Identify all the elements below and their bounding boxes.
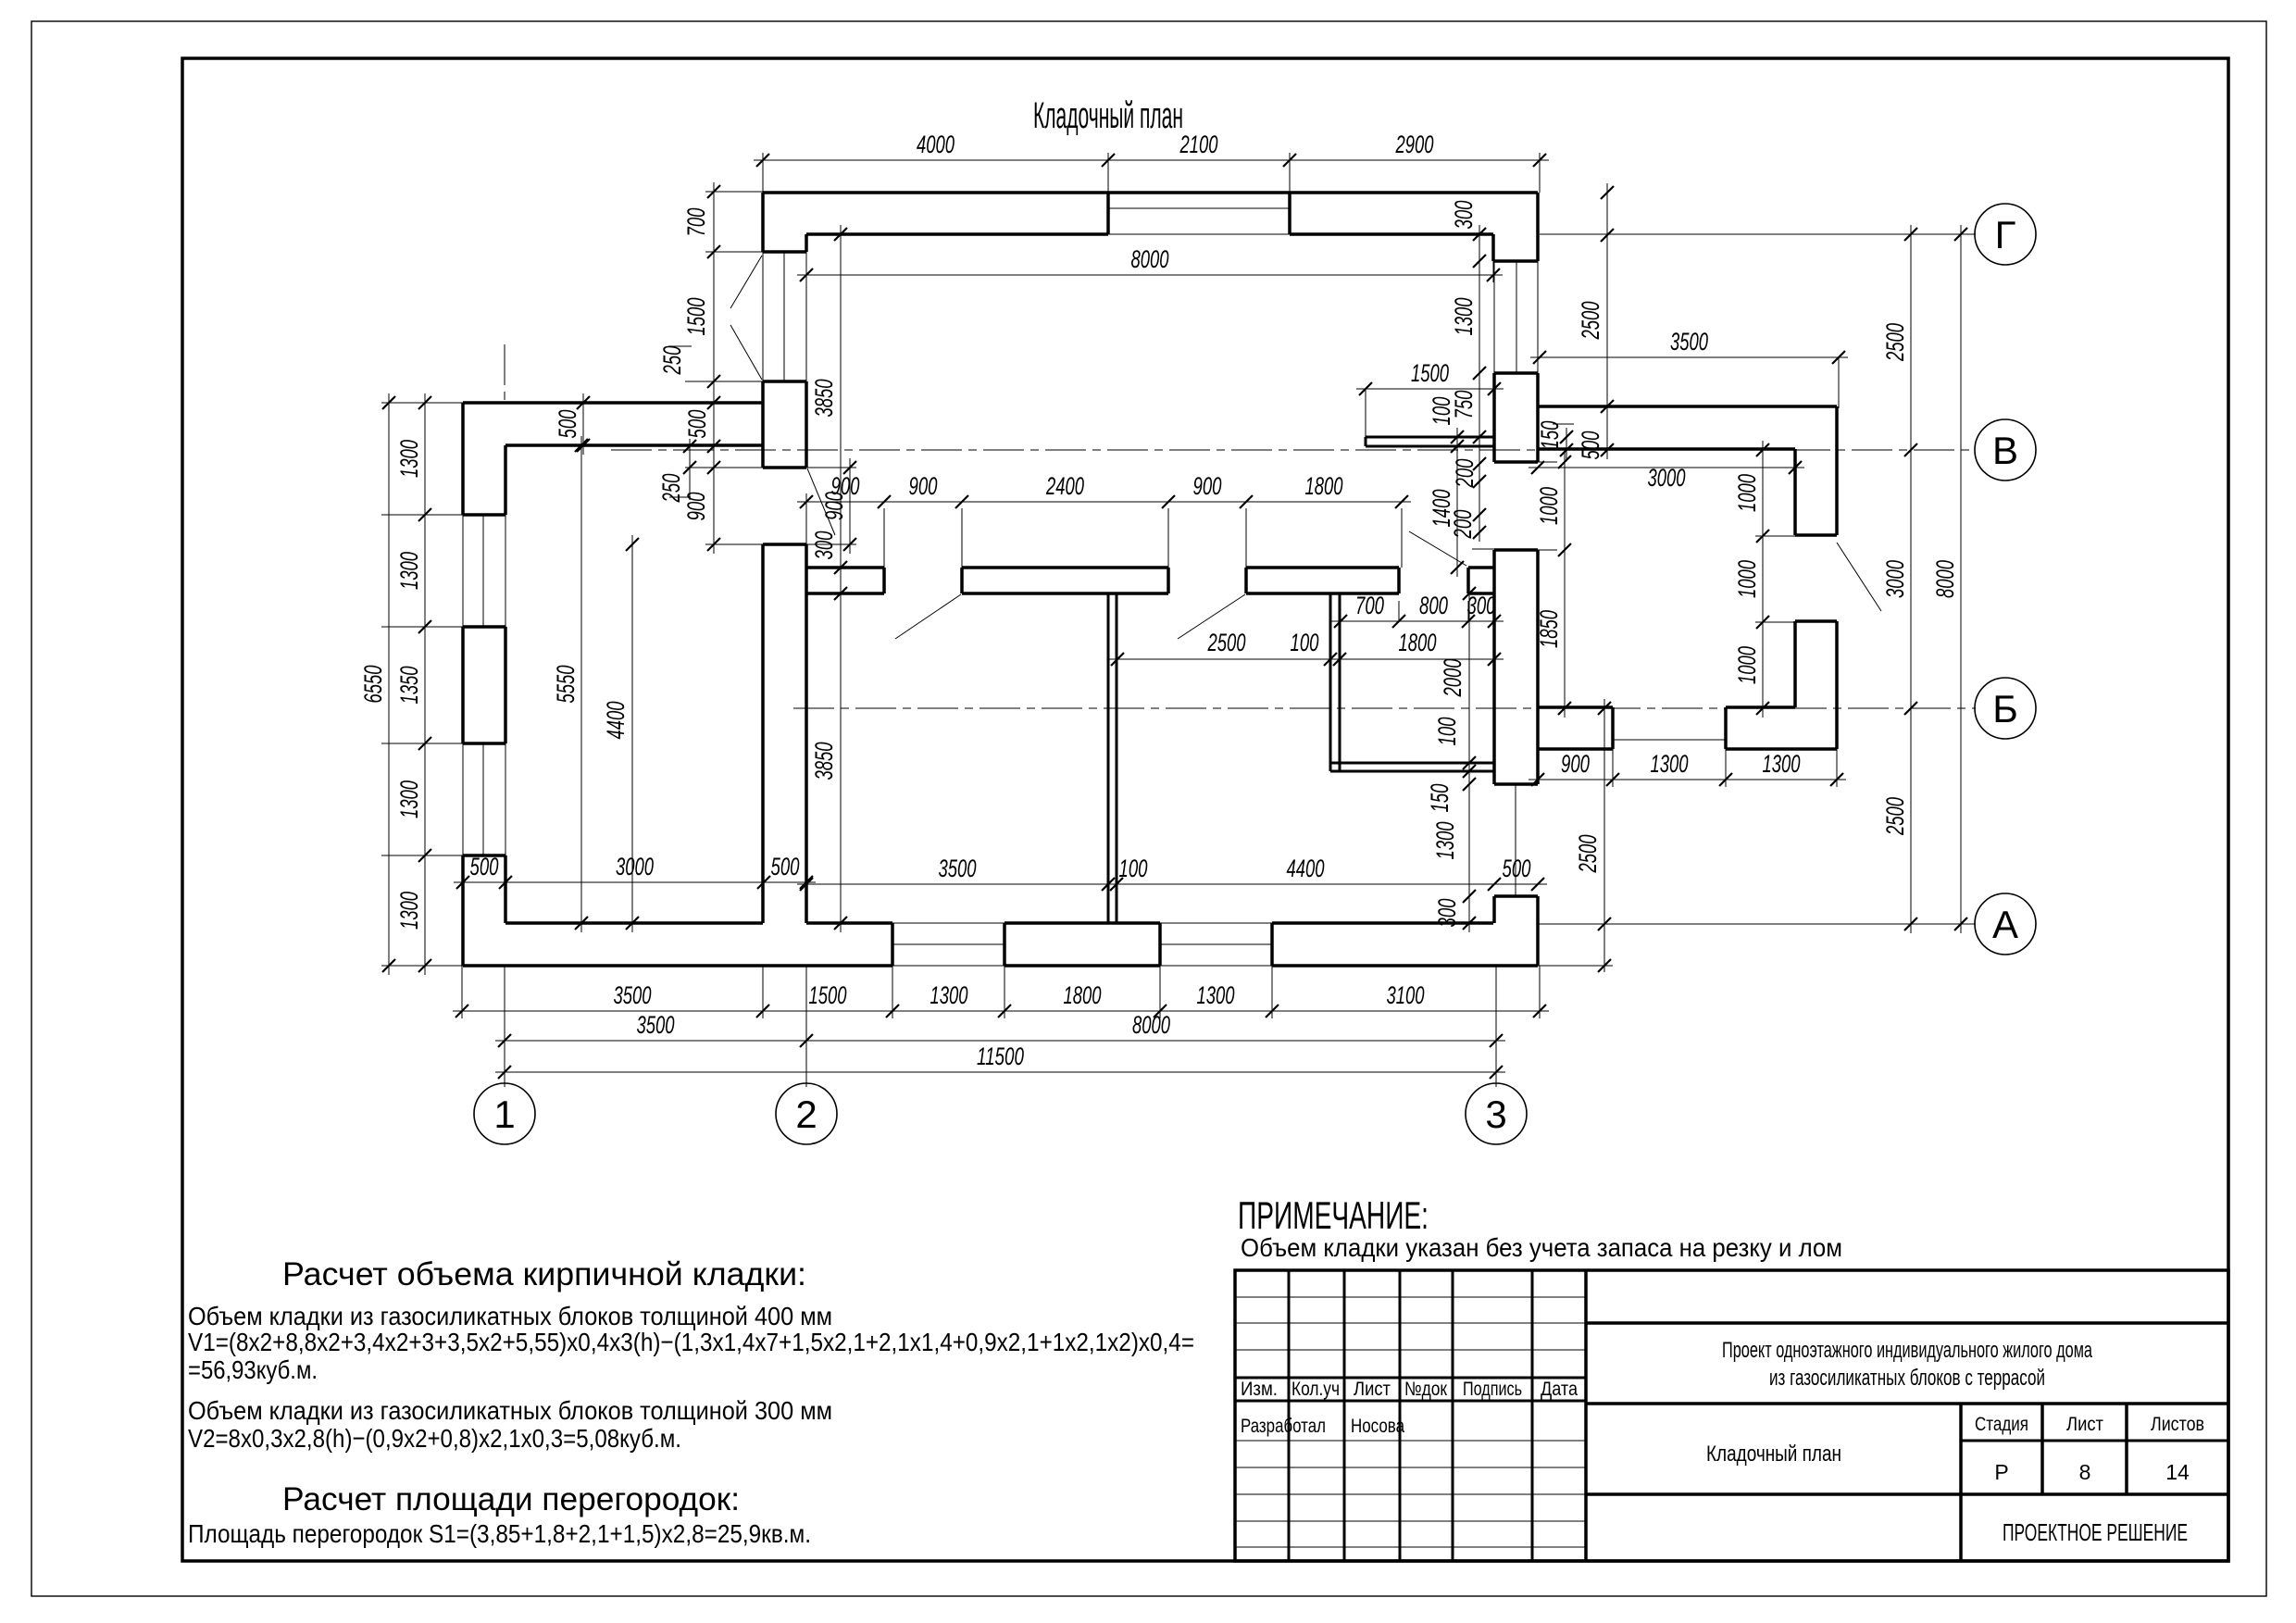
svg-text:8000: 8000: [1931, 560, 1959, 598]
svg-text:8000: 8000: [1131, 245, 1169, 273]
top wall outer face: [763, 191, 1538, 194]
svg-text:Кладочный план: Кладочный план: [1033, 95, 1183, 136]
axis2 wall window 1500: [762, 252, 764, 381]
dim 250 lower with leader: [689, 439, 691, 500]
svg-text:3500: 3500: [614, 981, 652, 1009]
svg-text:1000: 1000: [1535, 487, 1563, 525]
right wall outer face: [1536, 193, 1540, 261]
top wall inner face left: [806, 232, 1108, 236]
svg-text:150: 150: [1536, 421, 1564, 450]
svg-text:1300: 1300: [1431, 822, 1459, 860]
ext line bottom wall right: [1538, 965, 1613, 967]
dim door 900 right side: [849, 458, 851, 554]
dim chain bottom axes: [495, 1040, 1505, 1042]
svg-text:100: 100: [1433, 718, 1461, 746]
kitchen partition 100: [1366, 436, 1494, 439]
svg-text:2500: 2500: [1881, 323, 1909, 362]
svg-text:1300: 1300: [1651, 750, 1689, 778]
svg-text:1300: 1300: [1763, 750, 1801, 778]
ext line right wall 593: [1472, 548, 1494, 550]
dim chain axes right 2500/3000/2500: [1910, 225, 1912, 933]
svg-text:1300: 1300: [1450, 298, 1478, 336]
annex left wall mid block: [463, 625, 505, 629]
svg-text:900: 900: [909, 472, 938, 500]
axis circle 3: [1466, 1083, 1527, 1144]
svg-text:3500: 3500: [1670, 328, 1708, 356]
right wall pier: [1494, 371, 1538, 375]
svg-text:Объем кладки указан без учета: Объем кладки указан без учета запаса на …: [1241, 1233, 1842, 1262]
dim chain interior bottom rooms 3500/100/4400/500: [797, 883, 1547, 885]
wc west partition 100: [1329, 593, 1332, 771]
svg-text:4400: 4400: [602, 702, 630, 740]
svg-text:900: 900: [1193, 472, 1222, 500]
dim annex interior 5550: [580, 436, 582, 932]
svg-text:Расчет объема кирпичной кладки: Расчет объема кирпичной кладки:: [282, 1256, 806, 1292]
svg-text:700: 700: [1355, 592, 1384, 619]
axis line 1: [504, 344, 505, 404]
living room door leaf: [895, 594, 961, 639]
svg-text:3850: 3850: [810, 743, 838, 780]
ext line terrace 3500: [1838, 357, 1840, 408]
axis line В: [611, 449, 1976, 451]
wc south wall 100: [1330, 762, 1494, 765]
svg-text:1300: 1300: [930, 981, 968, 1009]
annex window1 glazing: [462, 515, 464, 627]
svg-text:8: 8: [2079, 1460, 2091, 1484]
corridor wall seg 1800: [1246, 566, 1399, 569]
dim chain annex windows: [424, 393, 426, 975]
annex door leaf: [807, 468, 835, 535]
dim kitchen partition 1500: [1356, 388, 1504, 390]
svg-text:1000: 1000: [1733, 560, 1761, 598]
top window 2100 jambs: [1106, 193, 1110, 234]
dim chain corridor doors: [797, 501, 1411, 503]
right wall nib below top wall: [1491, 234, 1495, 261]
right wall bottom corner: [1492, 896, 1496, 923]
dim overall right 8000: [1960, 225, 1962, 933]
dim terrace 3000: [1529, 467, 1804, 468]
axis circle А: [1975, 893, 2036, 955]
ext lines terrace bottom: [1612, 749, 1614, 787]
svg-text:Носова: Носова: [1351, 1416, 1404, 1437]
svg-text:150: 150: [1426, 784, 1454, 813]
svg-text:500: 500: [1577, 431, 1604, 460]
right wall window 1300 glazing: [1493, 261, 1495, 373]
svg-text:3850: 3850: [810, 380, 838, 418]
axis2 wall pier block: [763, 380, 806, 383]
svg-text:1800: 1800: [1399, 629, 1437, 656]
svg-text:5550: 5550: [552, 666, 580, 704]
dim chain axis2 left 700/1500/500/900: [713, 182, 715, 554]
svg-text:300: 300: [1450, 201, 1478, 230]
bottom windows glazing: [892, 943, 1004, 945]
corridor wall seg 900: [806, 566, 884, 569]
ext lines 8000 top: [805, 234, 807, 282]
title block right cells: [1586, 1321, 2228, 1325]
dim kitchen 100/1400: [1456, 428, 1458, 577]
ext lines top chain: [762, 153, 764, 193]
dim chain right wall lower 2000/100/150/1300/300: [1468, 584, 1470, 932]
svg-text:Б: Б: [1992, 687, 2018, 730]
svg-text:200: 200: [1451, 459, 1479, 489]
axis line А: [1538, 923, 1976, 925]
svg-text:3000: 3000: [1648, 464, 1686, 492]
svg-text:1350: 1350: [395, 667, 423, 705]
bottom window jambs: [891, 923, 894, 966]
axis circle 1: [474, 1083, 535, 1144]
svg-text:900: 900: [820, 492, 848, 520]
annex window2 glazing: [462, 743, 464, 855]
svg-text:Стадия: Стадия: [1975, 1414, 2028, 1435]
terrace south-east wall: [1726, 705, 1795, 709]
bedroom2 door leaf: [1178, 594, 1245, 639]
svg-text:800: 800: [1419, 592, 1448, 619]
svg-text:1000: 1000: [1733, 646, 1761, 684]
bottom wall outer face: [463, 964, 892, 968]
svg-text:3500: 3500: [637, 1011, 675, 1039]
svg-text:1300: 1300: [1197, 981, 1235, 1009]
svg-text:В: В: [1992, 429, 2018, 472]
right wall terrace-door jamb: [1494, 548, 1538, 552]
svg-text:Разработал: Разработал: [1241, 1416, 1326, 1437]
dim chain top 4000/2100/2900: [754, 159, 1549, 161]
svg-text:1300: 1300: [395, 552, 423, 590]
svg-text:Площадь перегородок S1=(3,85+1: Площадь перегородок S1=(3,85+1,8+2,1+1,5…: [188, 1519, 811, 1548]
wc north stub 300: [1468, 566, 1494, 569]
svg-text:№док: №док: [1404, 1379, 1448, 1400]
svg-text:1800: 1800: [1305, 472, 1343, 500]
svg-text:14: 14: [2165, 1460, 2190, 1484]
svg-text:250: 250: [657, 474, 685, 504]
axis circle 2: [776, 1083, 837, 1144]
svg-text:Кол.уч: Кол.уч: [1291, 1379, 1340, 1400]
svg-text:Дата: Дата: [1541, 1379, 1578, 1400]
svg-text:300: 300: [1433, 899, 1461, 928]
bottom wall inner face: [505, 921, 763, 925]
axis circle Б: [1975, 678, 2036, 739]
svg-text:1300: 1300: [395, 892, 423, 930]
leader to axis2 window: [730, 256, 762, 308]
svg-text:V1=(8x2+8,8x2+3,4x2+3+3,5x2+5,: V1=(8x2+8,8x2+3,4x2+3+3,5x2+5,55)x0,4x3(…: [188, 1328, 1194, 1356]
ext lines living room right of axis2: [806, 467, 856, 468]
svg-text:Объем кладки из газосиликатных: Объем кладки из газосиликатных блоков то…: [188, 1396, 832, 1425]
svg-text:3000: 3000: [616, 853, 654, 880]
svg-text:1300: 1300: [395, 440, 423, 478]
svg-text:Проект одноэтажного индивидуал: Проект одноэтажного индивидуального жило…: [1722, 1338, 2092, 1363]
svg-text:2: 2: [795, 1092, 817, 1136]
svg-text:ПРОЕКТНОЕ РЕШЕНИЕ: ПРОЕКТНОЕ РЕШЕНИЕ: [2003, 1518, 2188, 1546]
dim chain terrace door 1000/1850: [1564, 453, 1566, 718]
annex top wall inner: [505, 443, 763, 447]
terrace steps line: [1613, 739, 1726, 741]
svg-text:11500: 11500: [977, 1042, 1024, 1070]
svg-text:500: 500: [470, 853, 499, 880]
partition 100 between bedrooms: [1107, 593, 1110, 923]
svg-text:Объем кладки из газосиликатных: Объем кладки из газосиликатных блоков то…: [188, 1302, 832, 1330]
dim bottom overall 11500: [495, 1071, 1505, 1073]
ext lines corridor chain: [883, 508, 885, 568]
dim terrace 3500: [1530, 356, 1848, 358]
svg-text:500: 500: [683, 410, 711, 439]
top wall inner face right: [1290, 232, 1493, 236]
annex top wall outer: [463, 401, 763, 405]
axis circle Г: [1975, 204, 2036, 265]
svg-text:100: 100: [1291, 629, 1319, 656]
svg-text:6550: 6550: [359, 666, 387, 704]
svg-text:2500: 2500: [1574, 835, 1602, 874]
svg-text:2400: 2400: [1045, 472, 1084, 500]
svg-text:1850: 1850: [1535, 610, 1563, 648]
dim chain bedroom2/wc 2500/100/1800: [1108, 658, 1504, 660]
terrace SE pillar: [1795, 619, 1837, 623]
terrace NE pillar: [1835, 406, 1839, 535]
svg-text:2100: 2100: [1179, 131, 1218, 158]
axis circle В: [1975, 419, 2036, 481]
dim chain annex interior 500/3000/500: [454, 881, 816, 883]
svg-text:Лист: Лист: [2066, 1414, 2103, 1435]
svg-text:Листов: Листов: [2151, 1414, 2204, 1435]
ext lines annex left: [381, 402, 463, 404]
title block left table rows: [1235, 1296, 1586, 1298]
dim axis2 wall 4400: [631, 535, 633, 932]
svg-text:4000: 4000: [917, 131, 955, 158]
svg-text:Кладочный план: Кладочный план: [1706, 1442, 1841, 1467]
dim annex 6550: [388, 393, 390, 975]
dim chain bottom openings: [453, 1010, 1549, 1012]
svg-text:3500: 3500: [939, 855, 977, 882]
svg-text:100: 100: [1119, 855, 1148, 882]
svg-text:3: 3: [1485, 1092, 1506, 1136]
dim chain terrace pillars 1000x3: [1762, 441, 1764, 718]
top wall left end block: [761, 193, 765, 252]
right wall lower door leaf: [1515, 784, 1516, 896]
ext lines wc chain: [1340, 601, 1341, 621]
svg-text:Подпись: Подпись: [1463, 1379, 1522, 1400]
corridor wall seg 2400: [962, 566, 1168, 569]
svg-text:500: 500: [554, 410, 581, 439]
dim chain wc 700/800/300: [1331, 620, 1504, 622]
terrace leader line: [1837, 543, 1881, 611]
dim chain terrace bottom: [1529, 779, 1846, 780]
svg-text:ПРИМЕЧАНИЕ:: ПРИМЕЧАНИЕ:: [1238, 1193, 1429, 1237]
svg-text:А: А: [1992, 903, 2018, 946]
svg-text:Расчет площади перегородок:: Расчет площади перегородок:: [282, 1481, 740, 1517]
svg-text:300: 300: [810, 531, 838, 560]
dim annex top wall 500: [582, 393, 584, 455]
svg-text:750: 750: [1450, 391, 1478, 419]
dim 2500 lower right: [1603, 699, 1605, 972]
svg-text:2000: 2000: [1439, 659, 1466, 698]
annex left wall top block: [461, 403, 465, 515]
svg-text:Г: Г: [1995, 213, 2016, 256]
svg-text:500: 500: [771, 853, 800, 880]
svg-text:2500: 2500: [1881, 797, 1909, 836]
ext line kitchen 1500: [1365, 389, 1366, 437]
svg-text:=56,93куб.м.: =56,93куб.м.: [188, 1355, 318, 1384]
svg-text:900: 900: [1561, 750, 1590, 778]
title block left table columns: [1288, 1270, 1291, 1561]
svg-text:1300: 1300: [395, 780, 423, 818]
svg-text:3100: 3100: [1387, 981, 1425, 1009]
svg-text:700: 700: [682, 208, 710, 237]
dim chain living/bedroom 3850/300/3850: [840, 225, 842, 932]
axis line 2: [805, 966, 807, 1087]
svg-text:1500: 1500: [1411, 359, 1449, 387]
ext lines terrace pillar dims: [1755, 535, 1795, 537]
svg-text:1500: 1500: [682, 298, 710, 336]
svg-text:4400: 4400: [1287, 855, 1325, 882]
axis2 wall below door: [763, 543, 806, 546]
svg-text:Р: Р: [1994, 1460, 2008, 1484]
ext lines terrace door dims: [1538, 461, 1557, 463]
svg-text:200: 200: [1449, 510, 1477, 540]
svg-text:V2=8x0,3x2,8(h)−(0,9x2+0,8)x2,: V2=8x0,3x2,8(h)−(0,9x2+0,8)x2,1x0,3=5,08…: [188, 1424, 681, 1453]
svg-text:250: 250: [658, 346, 686, 376]
dim 150 kitchen: [1566, 428, 1567, 459]
right wall lower door jambs: [1494, 782, 1538, 786]
dim chain house-terrace 2500/500: [1606, 183, 1608, 459]
svg-text:1: 1: [493, 1092, 515, 1136]
terrace south-west wall: [1538, 705, 1613, 709]
svg-text:2900: 2900: [1395, 131, 1434, 158]
annex left wall bottom block: [463, 854, 505, 857]
svg-text:1000: 1000: [1733, 474, 1761, 512]
svg-text:Изм.: Изм.: [1241, 1379, 1278, 1400]
svg-text:1500: 1500: [809, 981, 847, 1009]
svg-text:из газосиликатных блоков с тер: из газосиликатных блоков с террасой: [1769, 1366, 2045, 1391]
svg-text:2500: 2500: [1207, 629, 1246, 656]
ext lines axis2 chain: [705, 191, 763, 193]
svg-text:Лист: Лист: [1354, 1379, 1391, 1400]
svg-text:900: 900: [682, 493, 710, 521]
svg-text:3000: 3000: [1881, 560, 1909, 598]
svg-text:300: 300: [1467, 592, 1496, 619]
axis line Г: [1540, 233, 1976, 235]
axis line 3: [1495, 966, 1497, 1087]
right wall mid section inner: [1492, 550, 1496, 784]
terrace north wall: [1538, 405, 1837, 408]
axis line Б: [793, 707, 1976, 709]
svg-text:500: 500: [1503, 855, 1531, 882]
wc door leaf: [1409, 531, 1466, 566]
dim chain right wall upper 300/1300/750/200/200: [1479, 225, 1480, 542]
dim 8000 top interior: [797, 274, 1503, 276]
svg-text:8000: 8000: [1132, 1011, 1170, 1039]
ext lines bottom chain1: [461, 966, 463, 1018]
svg-text:2500: 2500: [1577, 302, 1604, 341]
top window 2100 glazing: [1108, 207, 1290, 209]
svg-text:1800: 1800: [1064, 981, 1102, 1009]
